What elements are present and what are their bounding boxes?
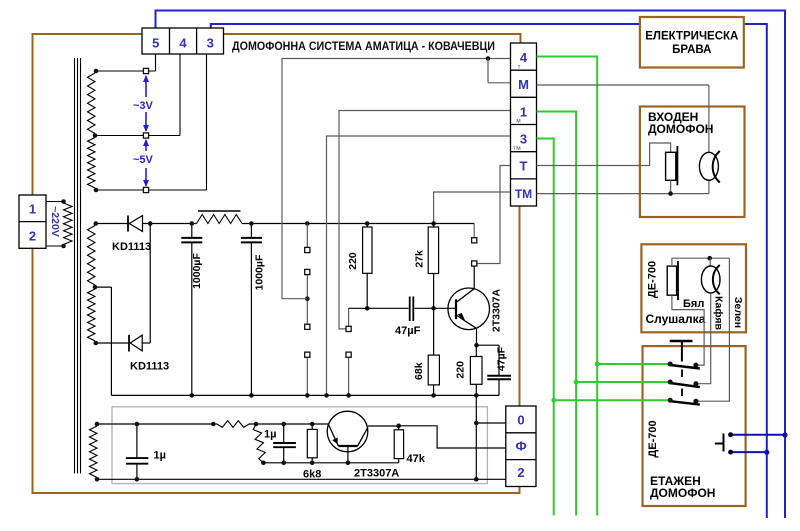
svg-text:1: 1 <box>520 104 527 119</box>
svg-text:Бял: Бял <box>683 298 704 310</box>
svg-text:тм: тм <box>513 145 521 152</box>
svg-text:1: 1 <box>29 202 36 217</box>
svg-text:БРАВА: БРАВА <box>672 44 711 56</box>
svg-text:KD1113: KD1113 <box>112 241 151 253</box>
svg-text:т: т <box>518 64 521 71</box>
svg-text:5: 5 <box>152 36 159 51</box>
svg-text:~3V: ~3V <box>133 100 154 112</box>
svg-text:Ф: Ф <box>515 439 526 454</box>
svg-text:68k: 68k <box>413 362 425 380</box>
svg-text:4: 4 <box>520 50 528 65</box>
svg-text:1µ: 1µ <box>264 429 276 441</box>
svg-text:3: 3 <box>520 132 527 147</box>
svg-text:4: 4 <box>179 36 187 51</box>
svg-text:47µF: 47µF <box>395 325 421 337</box>
svg-text:~5V: ~5V <box>133 154 154 166</box>
svg-text:220: 220 <box>347 252 359 270</box>
svg-text:27k: 27k <box>413 250 425 268</box>
svg-text:0: 0 <box>517 413 524 428</box>
svg-text:M: M <box>518 77 529 92</box>
svg-text:Кафяв: Кафяв <box>712 296 724 331</box>
svg-text:2: 2 <box>29 229 36 244</box>
svg-text:Слушалка: Слушалка <box>646 312 706 326</box>
svg-text:220: 220 <box>455 361 467 379</box>
svg-text:ДОМОФОН: ДОМОФОН <box>650 486 715 500</box>
svg-text:ДОМОФОН: ДОМОФОН <box>648 122 713 136</box>
svg-text:2T3307A: 2T3307A <box>354 468 399 480</box>
svg-text:Зелен: Зелен <box>732 297 744 328</box>
svg-text:T: T <box>520 159 528 174</box>
svg-text:м: м <box>516 118 521 125</box>
svg-text:ДЕ-700: ДЕ-700 <box>647 420 659 457</box>
svg-text:KD1113: KD1113 <box>130 361 169 373</box>
svg-text:ЕЛЕКТРИЧЕСКА: ЕЛЕКТРИЧЕСКА <box>645 31 738 43</box>
svg-text:1000µF: 1000µF <box>191 253 203 289</box>
svg-text:2: 2 <box>517 465 524 480</box>
svg-text:47k: 47k <box>407 453 426 465</box>
svg-text:2T3307A: 2T3307A <box>491 288 503 332</box>
svg-text:TM: TM <box>515 187 532 201</box>
svg-text:ДЕ-700: ДЕ-700 <box>647 261 659 298</box>
svg-text:6k8: 6k8 <box>303 469 321 481</box>
svg-text:47µF: 47µF <box>496 346 508 371</box>
svg-text:1000µF: 1000µF <box>254 254 266 290</box>
svg-text:1µ: 1µ <box>154 450 166 462</box>
svg-text:~220V: ~220V <box>49 206 61 237</box>
svg-text:3: 3 <box>207 36 214 51</box>
svg-text:ДОМОФОННА СИСТЕМА АМАТИЦА - КО: ДОМОФОННА СИСТЕМА АМАТИЦА - КОВАЧЕВЦИ <box>232 41 495 53</box>
